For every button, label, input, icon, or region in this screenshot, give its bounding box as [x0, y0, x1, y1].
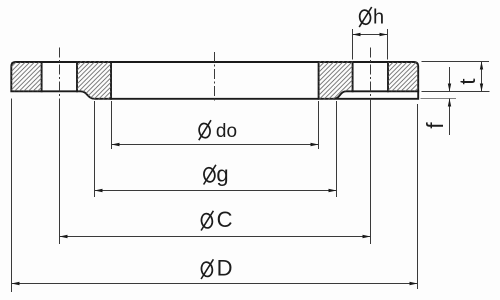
- svg-text:C: C: [217, 207, 233, 232]
- dim f extension line: [421, 98, 457, 100]
- hatching block 3: [319, 61, 353, 100]
- label phi-do: [198, 120, 237, 142]
- svg-text:D: D: [217, 256, 233, 281]
- bolt hole right edge lines: [353, 62, 388, 91]
- dim phi-h extension lines: [353, 29, 388, 60]
- dim phi-D extension lines: [12, 99, 418, 293]
- dim phi-do line: [112, 144, 319, 146]
- centerline main: [214, 52, 216, 102]
- svg-text:f: f: [422, 122, 448, 129]
- bolt hole left edge lines: [42, 62, 77, 91]
- dim phi-D line: [12, 283, 418, 285]
- dim phi-h arrows: [353, 33, 361, 36]
- dim phi-C line: [60, 236, 371, 238]
- hatching block 1: [11, 62, 41, 91]
- svg-text:t: t: [455, 78, 480, 84]
- label phi-C: [200, 207, 232, 232]
- svg-text:do: do: [216, 121, 237, 142]
- dim f lower stub: [449, 99, 451, 136]
- svg-text:h: h: [373, 7, 384, 29]
- dim phi-h line: [353, 34, 388, 36]
- dim phi-g line: [95, 190, 337, 192]
- dim f upper stub: [449, 67, 451, 92]
- label phi-h: [359, 7, 385, 29]
- svg-text:g: g: [216, 161, 228, 186]
- dim t extension lines: [422, 62, 490, 92]
- dim phi-do extension lines: [112, 101, 319, 149]
- right rim bottom line + right fillet: [334, 91, 418, 99]
- flange body outline: [11, 62, 418, 99]
- bore edge lines: [111, 62, 319, 99]
- hatching block 2: [77, 61, 112, 100]
- dim t line: [481, 62, 483, 92]
- dim phi-g extension lines: [95, 101, 337, 197]
- centerline bolt left: [59, 48, 61, 107]
- label phi-g: [203, 161, 229, 186]
- outline: left edge, top, right edge, bottom face, left fillet, left rim bottom: [11, 62, 418, 99]
- centerline bolt right: [370, 48, 372, 107]
- label phi-D: [200, 256, 232, 281]
- hatching block 4: [388, 62, 418, 91]
